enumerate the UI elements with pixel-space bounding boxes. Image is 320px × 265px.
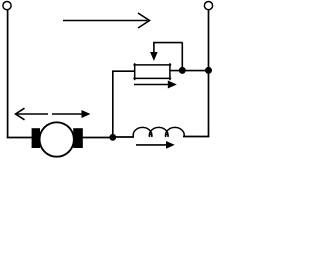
node C (junction dot on right rail) (205, 67, 212, 74)
wire: horizontal to rheostat left lead (112, 70, 135, 72)
wire: motor right to node A (83, 137, 115, 139)
arrow (filled) below inductor (136, 141, 175, 149)
wire: right vertical rail from T2 down (208, 10, 210, 138)
terminal T1 (top left) (3, 2, 11, 10)
node A (junction dot) (109, 134, 116, 141)
wire: wiper tap horizontal run (153, 42, 183, 44)
wire: bottom-right horizontal to inductor (183, 136, 209, 138)
rheostat wiper arrow (down into box) (150, 43, 158, 61)
motor brush (right) (73, 128, 83, 148)
wire: rheostat right lead to right rail (170, 70, 209, 72)
motor brush (left) (32, 128, 40, 148)
arrow (left, open head) above motor (16, 108, 49, 120)
arrow (right, filled head) above motor (52, 110, 91, 118)
wire: node A to inductor left lead (113, 136, 134, 138)
wire: left vertical from T1 down (7, 10, 9, 138)
wire: wiper tap vertical down to node B (181, 43, 183, 71)
arrow (filled) below rheostat (134, 81, 177, 89)
inductor L (3-loop coil) (133, 127, 184, 136)
wire: bottom-left horizontal to motor (7, 137, 32, 139)
motor M armature circle (40, 122, 74, 156)
rheostat R body (box) (133, 63, 171, 80)
arrow (top, open head) (63, 13, 150, 28)
node B (junction dot on rheostat lead) (179, 67, 186, 74)
wire: vertical from node A up to rheostat branch (112, 71, 114, 137)
terminal T2 (top right) (204, 2, 212, 10)
